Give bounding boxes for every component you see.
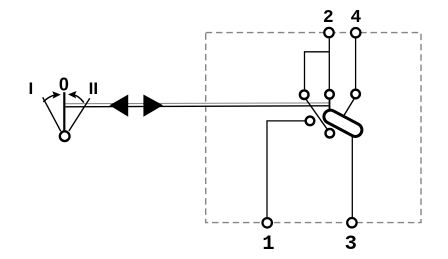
- arrow triangle left: [110, 95, 129, 117]
- terminal 1: [263, 218, 272, 227]
- actuator capsule: [322, 108, 365, 139]
- lever vertical line (position 0): [63, 92, 65, 131]
- svg-text:3: 3: [345, 233, 357, 256]
- contact circle a (branch of T2): [300, 90, 309, 99]
- svg-text:1: 1: [262, 233, 274, 256]
- wire: terminal 2 down to contact: [328, 38, 330, 90]
- wire: diagonal from contact of 4 to actuator: [342, 99, 355, 120]
- wire: mechanical link double line (bottom): [65, 106, 329, 107]
- contact circle e (lower): [326, 129, 335, 138]
- svg-text:II: II: [89, 79, 98, 98]
- wire: actuator to terminal 3: [351, 134, 353, 217]
- terminal 2: [324, 28, 333, 37]
- lever position II leg: [69, 98, 90, 131]
- curved arrow right: [74, 95, 84, 103]
- svg-text:0: 0: [59, 75, 69, 95]
- contact circle d (T1): [306, 117, 315, 126]
- svg-text:2: 2: [323, 8, 334, 28]
- contact circle c (T4): [351, 90, 360, 99]
- svg-text:I: I: [29, 79, 34, 98]
- lever position I leg: [43, 97, 61, 131]
- wire: diagonal from contact of 2 to lower contact: [306, 99, 328, 130]
- curved arrow left: [43, 95, 55, 102]
- arrow triangle right: [143, 95, 163, 117]
- terminal 3: [347, 218, 356, 227]
- wire: mechanical link double line (top): [65, 102, 329, 105]
- wire: branch to left contact: [305, 52, 330, 91]
- svg-text:4: 4: [350, 8, 361, 28]
- wire: terminal 4 down to contact: [355, 38, 357, 89]
- enclosure dashed box: [206, 33, 421, 223]
- terminal 4: [351, 28, 360, 37]
- pivot contact circle: [60, 131, 70, 141]
- contact circle b (T2): [325, 90, 334, 99]
- wire: short link middle contact to actuator: [329, 99, 331, 115]
- wire: terminal 1 up and right to contact: [267, 121, 306, 217]
